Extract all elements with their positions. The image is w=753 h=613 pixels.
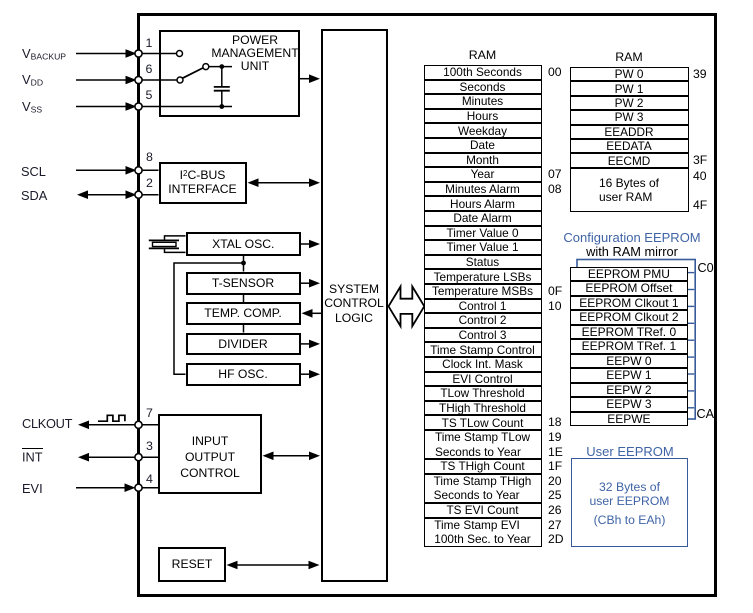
mirror tick [686,373,694,375]
label INPUT OUTPUT CONTROL [158,433,262,482]
register row Temperature MSBs [424,284,542,299]
register row Control 3 [424,328,542,343]
address label 08 [548,182,562,197]
register row EEPROM Clkout 2 [570,310,688,325]
pin number 1 [146,36,153,50]
wire pin 3 stub to IO control [140,456,158,458]
address label 10 [548,299,562,314]
block U_HF HF OSC. box [186,363,301,386]
wire pin 6 stub into PMU [140,79,177,81]
register block 16 Bytes of user RAM [570,168,689,212]
address label 25 [548,488,562,503]
wire T-SENSOR to system control logic, arrow [300,279,320,288]
pin number 8 [146,150,153,164]
register row EEPW 2 [570,383,688,398]
register row EEPW 1 [570,368,688,383]
register row TLow Threshold [424,386,542,401]
register row PW 2 [570,96,689,110]
wire junction to HF OSC (bypass) [174,263,244,374]
register row EEPW 3 [570,397,688,412]
wire pin 8 stub to I2C interface [140,169,159,171]
wire pin 7 stub to IO control [140,424,158,426]
register row PW 1 [570,81,689,95]
wire I2C interface to system control logic, bidirectional [248,178,321,187]
label T-SENSOR [186,277,301,290]
register row Time Stamp Control [424,342,542,357]
EEPROM RAM-mirror shadow box (blue) [577,260,695,420]
address label 2D [548,532,564,547]
title User EEPROM [556,445,704,459]
address label 3F [693,153,707,168]
wire EVI to pin 4 with arrow [76,483,136,492]
address label 20 [548,474,562,489]
address label CA [697,407,715,422]
crystal X1 plates [149,240,179,248]
register row EEPWE [570,412,688,427]
register row Timer Value 0 [424,226,542,241]
pin number 3 [146,439,153,453]
bus arrow system control logic to RAM (hollow double arrow) [389,287,425,327]
wire DIVIDER to system control logic, arrow [300,340,320,349]
capacitor C1 plates [214,87,230,91]
pin 4 terminal circle [135,484,142,491]
pin 5 terminal circle [135,103,142,110]
junction node at VSS rail [219,104,224,109]
switch contact terminal VDD (open circle) [177,77,183,83]
register row EEPW 0 [570,354,688,369]
block U_XTAL XTAL OSC. box [186,232,302,256]
register row Year [424,167,542,182]
mirror tick [686,390,694,392]
mirror tick [686,305,694,307]
net label VSS [22,99,42,115]
wire INT from pin 3, output arrow [78,453,138,462]
switch contact terminal VBACKUP (open circle) [177,51,183,57]
register row EEADDR [570,125,689,139]
wire VSS to pin 5 with arrow [76,102,137,111]
label 32 Bytes of user EEPROM (CBh to EAh) [571,480,688,527]
register row Date [424,138,542,153]
address label 26 [548,503,562,518]
mirror tick [686,289,694,291]
wire pin 4 stub to IO control [140,487,158,489]
wire pin 5 rail inside PMU [140,106,232,108]
label XTAL OSC. [186,238,302,251]
register row THigh Threshold [424,401,542,416]
register row Seconds [424,80,542,95]
wire XTAL OSC to system control logic, arrow [300,240,320,249]
address label 00 [548,65,562,80]
pin 1 terminal circle [135,50,142,57]
block U_I2C I2C-BUS INTERFACE box [159,162,247,204]
chip outline (RTC device boundary) [137,13,717,597]
register row Clock Int. Mask [424,357,542,372]
register row Time Stamp EVI / 100th Sec. to Year [424,518,542,547]
address label 07 [548,167,562,182]
address label 40 [693,169,707,184]
wire switch pole to node [209,66,232,68]
address label 27 [548,518,562,533]
register row EEDATA [570,139,689,153]
wire pin 2 stub to I2C interface [140,194,159,196]
wire HF OSC to system control logic, arrow [300,370,320,379]
wire XTAL OSC to T-SENSOR [243,256,245,272]
address label C0 [698,261,714,276]
label TEMP. COMP. [186,307,301,320]
wire T-SENSOR to TEMP. COMP. [243,295,245,302]
block U_DIV DIVIDER box [186,333,301,356]
address label 4F [693,198,707,213]
net label INT (active low, overline) [22,450,43,465]
label SYSTEM CONTROL LOGIC [321,282,388,326]
net label CLKOUT [22,416,72,431]
pin number 7 [146,406,153,420]
block U_IOC INPUT OUTPUT CONTROL box [158,414,262,494]
register row Minutes Alarm [424,182,542,197]
pin number 6 [146,62,153,76]
junction node at capacitor top [219,64,224,69]
register row EEPROM TRef. 0 [570,325,688,340]
net label SDA [21,188,47,203]
register row Hours [424,109,542,124]
title RAM (clock registers) [424,49,542,63]
block U_SCL SYSTEM CONTROL LOGIC box [321,29,388,582]
register row PW 3 [570,110,689,124]
address label 19 [548,430,562,445]
switch blade SW1 [183,68,203,78]
capacitor C1 top lead [221,67,223,86]
pin 2 terminal circle [135,191,142,198]
register row Minutes [424,94,542,109]
label RESET [158,558,226,571]
register row EEPROM Offset [570,281,688,296]
wire crystal top lead to XTAL OSC [165,236,186,241]
register row Control 1 [424,299,542,314]
capacitor C1 bottom lead [221,91,223,107]
wire VDD to pin 6 with arrow [76,76,137,85]
register row TS EVI Count [424,503,542,518]
title Configuration EEPROM [556,231,708,245]
register row Date Alarm [424,211,542,226]
pin number 5 [146,88,153,102]
pin 6 terminal circle [135,76,142,83]
block User EEPROM 32 bytes box [571,458,688,547]
register row EEPROM PMU [570,267,688,282]
wire VBACKUP to pin 1 with arrow [76,49,137,58]
pin 3 terminal circle [135,454,142,461]
label I2C-BUS INTERFACE [159,167,247,196]
register row Time Stamp TLow / Seconds to Year [424,430,542,459]
pin number 4 [146,472,153,486]
register row Hours Alarm [424,196,542,211]
switch pole terminal (open circle) [203,64,209,70]
block U_TCOMP TEMP. COMP. box [186,302,301,325]
address label 0F [548,284,562,299]
subtitle with RAM mirror [556,245,708,259]
mirror tick [686,322,694,324]
block U_TSENS T-SENSOR box [186,272,301,296]
mirror tick [686,356,694,358]
wire IO control to system control logic, bidirectional [263,452,321,461]
wire pin 1 stub into PMU [140,53,176,55]
register row Month [424,153,542,168]
register row Temperature LSBs [424,269,542,284]
register row Time Stamp THigh / Seconds to Year [424,474,542,503]
address label 1F [548,459,562,474]
wire SDA to pin 2, bidirectional arrows [77,190,137,199]
title RAM (password / EEPROM interface registers) [570,51,689,65]
register row TS TLow Count [424,415,542,430]
crystal X1 body [153,242,177,246]
register row Timer Value 1 [424,240,542,255]
label DIVIDER [186,338,301,351]
register row EEPROM Clkout 1 [570,296,688,311]
wire SCL to pin 8 with arrow [76,166,137,175]
block U_PMU POWER MANAGEMENT UNIT box [159,30,300,117]
address label 18 [548,415,562,430]
clock waveform symbol at CLKOUT [98,415,125,421]
wire system control logic to TEMP. COMP., arrow [302,309,322,318]
label POWER MANAGEMENT UNIT [208,34,302,74]
register row TS THigh Count [424,459,542,474]
junction node below XTAL OSC [241,261,246,266]
register row EECMD [570,153,689,167]
net label VBACKUP [22,46,66,62]
mirror tick [686,407,694,409]
register row EEPROM TRef. 1 [570,339,688,354]
address label 1E [548,445,563,460]
register row 100th Seconds [424,65,542,80]
mirror tick [686,339,694,341]
register row Weekday [424,123,542,138]
register row Control 2 [424,313,542,328]
register row Status [424,255,542,270]
net label SCL [21,164,46,179]
wire CLKOUT from pin 7, output arrow [78,421,138,430]
pin 8 terminal circle [135,167,142,174]
label HF OSC. [186,368,301,381]
mirror tick [686,272,694,274]
block U_RST RESET box [158,547,226,583]
net label VDD [22,72,43,88]
wire RESET to system control logic, bidirectional [227,561,320,570]
pin number 2 [146,176,153,190]
address label 39 [693,67,707,82]
wire crystal bottom lead to XTAL OSC [165,248,186,252]
register row PW 0 [570,67,689,81]
wire TEMP. COMP. to DIVIDER [243,325,245,333]
net label EVI [22,481,43,496]
register row EVI Control [424,372,542,387]
pin 7 terminal circle [135,421,142,428]
wire PMU to system control logic, arrow [299,74,320,83]
